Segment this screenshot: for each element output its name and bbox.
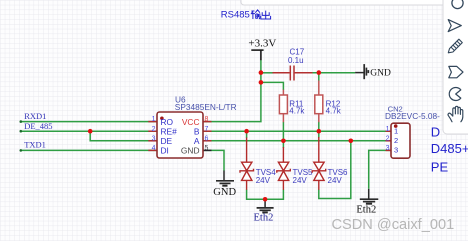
junction DE_485 bbox=[88, 129, 93, 134]
ground GND right of C17 bbox=[355, 64, 368, 79]
svg-text:2: 2 bbox=[386, 135, 390, 142]
IC U6 pin5 dark stub bbox=[203, 149, 212, 151]
svg-text:RO: RO bbox=[161, 117, 174, 127]
svg-text:4.7k: 4.7k bbox=[289, 107, 305, 116]
junction row B TVS4 bbox=[244, 129, 249, 134]
svg-text:6: 6 bbox=[205, 135, 209, 142]
IC U6 pin1 dot bbox=[160, 117, 164, 121]
svg-text:3: 3 bbox=[394, 145, 398, 154]
svg-text:7: 7 bbox=[205, 126, 209, 133]
junction row B R12 TVS6 bbox=[317, 129, 322, 134]
wire TVS4 top bbox=[246, 131, 248, 138]
svg-text:3: 3 bbox=[386, 145, 390, 152]
wire cap row right to GND bbox=[312, 72, 356, 74]
wire TXD1 to pin4 bbox=[21, 149, 158, 151]
TVS6 diode bbox=[312, 137, 326, 190]
wire TVS5 top bbox=[282, 141, 284, 148]
svg-text:D485+: D485+ bbox=[431, 141, 468, 156]
svg-text:GND: GND bbox=[213, 187, 236, 198]
hanzi shu of RS485 output bbox=[251, 10, 260, 19]
TVS5 diode bbox=[277, 147, 291, 190]
svg-text:RE#: RE# bbox=[161, 127, 178, 137]
icon circle partial bbox=[452, 0, 463, 9]
svg-text:GND: GND bbox=[181, 146, 200, 156]
svg-text:3: 3 bbox=[152, 135, 156, 142]
svg-text:8: 8 bbox=[205, 116, 209, 123]
TVS4 diode bbox=[240, 138, 254, 190]
svg-text:DE_485: DE_485 bbox=[24, 121, 52, 131]
svg-text:4: 4 bbox=[152, 145, 156, 152]
wire cap row left bbox=[261, 72, 274, 74]
wire TVS6 top bbox=[318, 131, 320, 138]
wire R11 branch bbox=[261, 82, 284, 90]
svg-text:5: 5 bbox=[205, 145, 209, 152]
power +3.3V symbol bbox=[251, 50, 263, 60]
svg-text:Eth2: Eth2 bbox=[254, 212, 274, 223]
svg-text:VCC: VCC bbox=[182, 117, 200, 127]
icon arrow next bbox=[448, 20, 461, 32]
power port Eth2 middle earth bbox=[257, 199, 274, 212]
wire RXD1 to pin1 bbox=[21, 121, 158, 123]
wire TVS4 TVS5 bottom bus to Eth2 bbox=[247, 190, 284, 200]
svg-text:CSDN @caixf_001: CSDN @caixf_001 bbox=[332, 217, 455, 233]
wire R11 bottom to row A bbox=[282, 122, 284, 141]
junction row A R11 TVS5 bbox=[281, 139, 286, 144]
wire end dot DE_485 bbox=[20, 130, 23, 133]
svg-text:+3.3V: +3.3V bbox=[248, 38, 276, 50]
svg-text:GND: GND bbox=[370, 69, 391, 79]
junction +3.3V node bbox=[259, 70, 264, 75]
svg-text:RS485: RS485 bbox=[221, 10, 250, 21]
icon hand grab bbox=[448, 106, 463, 122]
svg-text:D: D bbox=[431, 124, 440, 139]
svg-text:24V: 24V bbox=[256, 176, 271, 185]
hanzi chu of RS485 output bbox=[261, 11, 271, 19]
junction row A TVS6 return bbox=[349, 139, 354, 144]
wire R12 bottom to row B bbox=[318, 122, 320, 131]
connector CN2 pin1 dot bbox=[394, 124, 398, 128]
svg-text:24V: 24V bbox=[328, 176, 343, 185]
junction Eth2 middle bbox=[263, 197, 268, 202]
wire end dot TXD1 bbox=[20, 149, 23, 152]
svg-text:1: 1 bbox=[394, 126, 398, 135]
wire row B pin7 to CN2 pin1 bbox=[203, 130, 391, 132]
svg-text:4.7k: 4.7k bbox=[326, 107, 342, 116]
resistor R11 bbox=[279, 90, 287, 123]
junction cap right R12 bbox=[317, 70, 322, 75]
power port Eth2 right earth bbox=[360, 189, 379, 204]
junction R11 branch bbox=[259, 80, 264, 85]
svg-text:1: 1 bbox=[386, 126, 390, 133]
connector CN2 body bbox=[391, 123, 410, 158]
right toolbar panel bbox=[443, 0, 468, 134]
svg-text:SP3485EN-L/TR: SP3485EN-L/TR bbox=[175, 102, 237, 112]
wire branch DE_485 down to pin3 bbox=[90, 131, 157, 141]
wire +3.3V stem bbox=[260, 60, 262, 73]
svg-text:DI: DI bbox=[161, 146, 169, 156]
IC U6 pin stubs bbox=[148, 122, 211, 151]
connector CN2 pin stubs bbox=[386, 131, 392, 150]
ground GND below U6 bbox=[216, 171, 234, 186]
svg-text:0.1u: 0.1u bbox=[288, 56, 304, 65]
svg-text:1: 1 bbox=[152, 116, 156, 123]
wire TVS6 bottom loop to row A bbox=[319, 141, 351, 199]
top toolbar panel bbox=[241, 0, 446, 5]
wire end dot RXD1 bbox=[20, 120, 23, 123]
wire DE_485 to pin2 bbox=[21, 130, 158, 132]
wire row A pin6 to CN2 pin2 bbox=[203, 140, 391, 142]
svg-text:PE: PE bbox=[431, 159, 449, 174]
resistor R12 bbox=[315, 81, 323, 123]
svg-text:DB2EVC-5.08-: DB2EVC-5.08- bbox=[385, 111, 440, 121]
wire pin5 to GND bbox=[203, 150, 224, 170]
svg-text:24V: 24V bbox=[293, 176, 308, 185]
IC U6 body bbox=[157, 112, 203, 158]
icon arc pacman bbox=[449, 88, 461, 101]
svg-text:2: 2 bbox=[152, 126, 156, 133]
wire CN2 pin3 to Eth2 earth bbox=[369, 150, 391, 188]
svg-text:A: A bbox=[194, 136, 200, 146]
capacitor C17 bbox=[273, 66, 313, 81]
icon net tag pentagon bbox=[449, 66, 463, 77]
wire pin8 VCC up to +3.3V rail bbox=[203, 73, 261, 122]
svg-text:2: 2 bbox=[394, 136, 398, 145]
svg-text:RXD1: RXD1 bbox=[24, 111, 46, 121]
svg-text:Eth2: Eth2 bbox=[356, 205, 376, 216]
wire R12 top from cap row bbox=[318, 73, 320, 81]
svg-text:TXD1: TXD1 bbox=[24, 140, 46, 150]
svg-text:B: B bbox=[194, 127, 200, 137]
svg-text:DE: DE bbox=[161, 136, 173, 146]
icon pencil bbox=[448, 39, 462, 53]
